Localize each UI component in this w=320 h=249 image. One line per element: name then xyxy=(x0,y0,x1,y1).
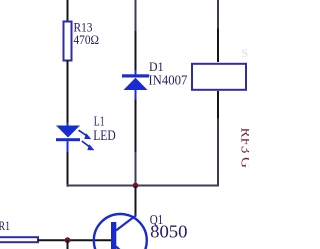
wire xyxy=(67,0,69,22)
svg-text:8050: 8050 xyxy=(150,221,188,241)
svg-text:S: S xyxy=(242,46,249,60)
svg-text:D1: D1 xyxy=(149,59,164,74)
wire (pin) xyxy=(135,100,137,153)
wire (pin) xyxy=(217,29,219,63)
wire xyxy=(67,152,69,185)
svg-text:470Ω: 470Ω xyxy=(74,33,100,47)
wire xyxy=(67,240,69,249)
svg-text:RF3 G: RF3 G xyxy=(238,128,250,169)
relay coil box xyxy=(192,64,246,90)
diode D1 xyxy=(122,70,149,100)
svg-text:LED: LED xyxy=(93,128,116,144)
wire xyxy=(67,61,69,124)
transistor Q1 xyxy=(94,214,147,249)
resistor R1 xyxy=(0,237,38,242)
wire xyxy=(135,0,137,31)
resistor R13 xyxy=(64,22,72,61)
junction node xyxy=(133,183,139,189)
svg-text:IN4007: IN4007 xyxy=(148,73,187,88)
wire (pin) xyxy=(217,91,219,119)
wire xyxy=(135,186,137,216)
svg-text:R1: R1 xyxy=(0,219,10,233)
wire (pin) xyxy=(135,31,137,73)
junction node xyxy=(65,237,71,243)
wire (net from LED corner to relay corner) xyxy=(68,119,219,187)
wire xyxy=(217,0,219,29)
wire (base) xyxy=(38,239,112,241)
wire xyxy=(135,152,137,186)
LED L1 xyxy=(56,123,94,153)
